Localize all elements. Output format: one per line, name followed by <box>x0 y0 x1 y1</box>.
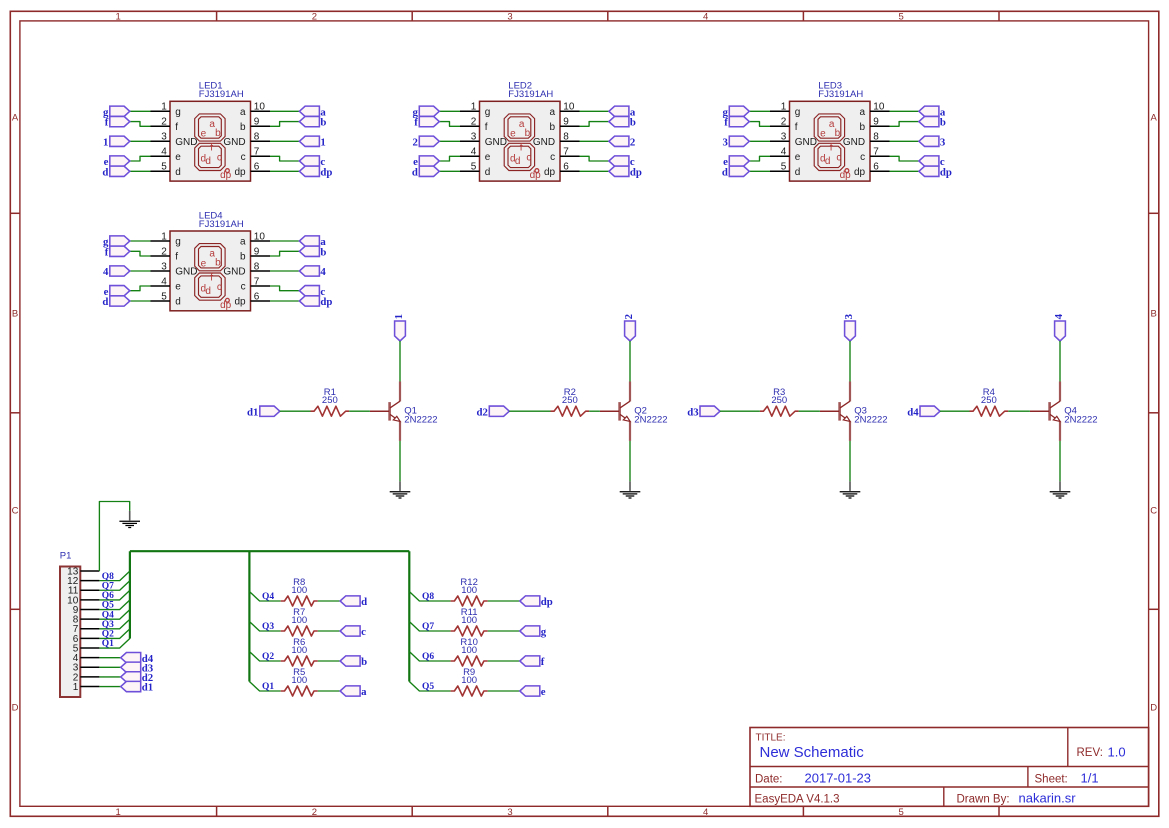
resistor R7 <box>281 626 318 636</box>
resistor R11 <box>451 626 488 636</box>
wire <box>1008 410 1030 412</box>
svg-text:10: 10 <box>254 102 266 113</box>
wire <box>749 156 770 161</box>
net flag dp <box>520 596 553 608</box>
svg-text:6: 6 <box>563 162 569 173</box>
wire <box>890 170 919 172</box>
7-segment display LED3 (FJ3191AH): body and segment glyph <box>790 101 871 181</box>
pin 5 (d) of LED4 with pin number <box>151 291 181 307</box>
svg-text:GND: GND <box>795 137 817 148</box>
wire <box>890 140 919 142</box>
svg-text:100: 100 <box>291 615 307 626</box>
net flag a <box>919 106 946 118</box>
svg-text:3: 3 <box>722 136 728 148</box>
svg-text:FJ3191AH: FJ3191AH <box>508 89 553 100</box>
wire <box>270 110 299 112</box>
svg-text:d1: d1 <box>142 682 153 694</box>
svg-text:c: c <box>836 152 841 163</box>
pin 4 (e) of LED4 with pin number <box>151 276 182 292</box>
svg-text:c: c <box>526 152 531 163</box>
pin 12 of P1 with pin number <box>67 576 99 587</box>
wire <box>249 622 280 632</box>
wire <box>99 638 129 648</box>
svg-text:Q4: Q4 <box>262 592 274 602</box>
pin 2 (f) of LED2 with pin number <box>460 117 488 133</box>
svg-text:REV:: REV: <box>1077 747 1103 759</box>
svg-text:dp: dp <box>541 596 553 608</box>
svg-text:dp: dp <box>530 170 542 181</box>
svg-text:FJ3191AH: FJ3191AH <box>199 219 244 230</box>
svg-text:1: 1 <box>103 136 108 148</box>
wire <box>439 122 460 127</box>
svg-text:4: 4 <box>103 266 109 278</box>
wire <box>99 619 129 629</box>
svg-text:f: f <box>210 143 213 154</box>
pin 4 (e) of LED2 with pin number <box>460 147 491 163</box>
wire <box>270 286 299 291</box>
pin 1 (g) of LED3 with pin number <box>770 102 800 118</box>
pin 7 (c) of LED3 with pin number <box>860 147 889 163</box>
svg-text:f: f <box>830 143 833 154</box>
wire <box>270 270 299 272</box>
svg-text:9: 9 <box>563 117 569 128</box>
pin 13 of P1 with pin number <box>67 566 99 577</box>
resistor R8 <box>281 596 318 606</box>
net flag f <box>724 116 749 128</box>
wire <box>270 251 299 256</box>
svg-text:GND: GND <box>175 137 197 148</box>
svg-text:B: B <box>12 308 18 319</box>
pin 9 (b) of LED3 with pin number <box>860 117 890 133</box>
pin 5 (d) of LED1 with pin number <box>151 162 181 178</box>
svg-text:g: g <box>795 107 801 118</box>
svg-text:1: 1 <box>116 807 121 818</box>
svg-text:3: 3 <box>161 132 167 143</box>
transistor Q3 (2N2222 NPN) <box>820 382 850 441</box>
svg-text:c: c <box>241 152 246 163</box>
wire <box>409 682 450 692</box>
wire (bus from P1) <box>129 551 131 638</box>
pin 8 of P1 with pin number <box>73 615 100 626</box>
svg-text:b: b <box>240 122 246 133</box>
svg-text:b: b <box>525 128 531 139</box>
net flag c <box>919 156 945 168</box>
wire <box>270 300 299 302</box>
transistor Q2 (2N2222 NPN) <box>600 382 630 441</box>
svg-text:1.0: 1.0 <box>1108 744 1126 759</box>
title block <box>750 728 1149 807</box>
pin 6 of P1 with pin number <box>73 634 100 645</box>
wire <box>99 590 129 600</box>
pin 10 of P1 with pin number <box>67 595 99 606</box>
svg-text:New Schematic: New Schematic <box>760 744 865 761</box>
svg-text:Q5: Q5 <box>102 601 114 611</box>
svg-text:Q8: Q8 <box>102 572 114 582</box>
svg-text:d: d <box>485 167 491 178</box>
net flag d2 <box>121 672 153 684</box>
svg-text:b: b <box>860 122 866 133</box>
svg-text:1: 1 <box>161 231 167 242</box>
svg-text:e: e <box>510 129 516 140</box>
resistor R1 <box>311 406 350 416</box>
svg-text:C: C <box>1150 505 1157 516</box>
resistor R12 <box>451 596 488 606</box>
wire <box>99 502 129 572</box>
svg-text:250: 250 <box>981 395 997 406</box>
pin 10 (a) of LED3 with pin number <box>860 102 890 118</box>
svg-text:b: b <box>215 258 221 269</box>
svg-text:A: A <box>1151 113 1158 124</box>
wire <box>749 170 770 172</box>
resistor R5 <box>281 686 318 696</box>
wire <box>99 676 120 678</box>
net flag 2 <box>623 314 635 341</box>
pin 6 (dp) of LED4 with pin number <box>234 291 270 307</box>
wire <box>749 122 770 127</box>
wire <box>629 441 631 482</box>
net flag a <box>609 106 636 118</box>
svg-text:f: f <box>175 122 178 133</box>
pin 9 (b) of LED1 with pin number <box>240 117 270 133</box>
wire <box>439 156 460 161</box>
wire <box>749 140 770 142</box>
svg-text:2: 2 <box>623 314 635 319</box>
svg-text:D: D <box>1150 702 1157 713</box>
svg-text:4: 4 <box>703 807 708 818</box>
wire (right bank bus) <box>408 551 410 681</box>
svg-text:e: e <box>795 152 801 163</box>
wire <box>99 610 129 620</box>
svg-text:8: 8 <box>563 132 569 143</box>
svg-text:2N2222: 2N2222 <box>1064 415 1097 426</box>
ground <box>119 511 140 528</box>
wire <box>270 156 299 161</box>
pin 8 (GND) of LED3 with pin number <box>843 132 890 148</box>
wire <box>130 286 151 291</box>
wire <box>99 657 120 659</box>
svg-text:b: b <box>550 122 556 133</box>
wire <box>890 156 919 161</box>
svg-text:100: 100 <box>461 675 477 686</box>
svg-text:4: 4 <box>781 147 787 158</box>
svg-text:250: 250 <box>562 395 578 406</box>
wire <box>318 690 340 692</box>
svg-text:1: 1 <box>320 136 325 148</box>
svg-text:2N2222: 2N2222 <box>854 415 887 426</box>
wire <box>318 600 340 602</box>
transistor Q1 (2N2222 NPN) <box>370 382 400 441</box>
wire <box>1059 341 1061 382</box>
net flag 1 <box>299 136 325 148</box>
svg-text:e: e <box>175 282 181 293</box>
pin 5 (d) of LED2 with pin number <box>460 162 490 178</box>
net flag g <box>103 236 130 248</box>
svg-text:Q1: Q1 <box>102 639 114 649</box>
net flag d3 <box>687 406 720 418</box>
resistor R9 <box>451 686 488 696</box>
resistor R10 <box>451 656 488 666</box>
wire <box>349 410 370 412</box>
svg-text:c: c <box>550 152 555 163</box>
ground <box>840 481 861 498</box>
svg-text:3: 3 <box>940 136 946 148</box>
net flag e <box>104 156 130 168</box>
wire <box>399 341 401 382</box>
wire (horizontal bus) <box>130 550 409 552</box>
pin 3 (GND) of LED2 with pin number <box>460 132 507 148</box>
svg-text:2: 2 <box>312 12 317 23</box>
svg-text:Q7: Q7 <box>422 622 434 632</box>
svg-text:Date:: Date: <box>755 773 783 785</box>
svg-text:d3: d3 <box>687 406 699 418</box>
svg-text:1: 1 <box>393 314 405 319</box>
svg-text:f: f <box>541 656 545 668</box>
svg-text:EasyEDA V4.1.3: EasyEDA V4.1.3 <box>755 793 840 805</box>
svg-text:c: c <box>217 152 222 163</box>
svg-text:FJ3191AH: FJ3191AH <box>818 89 863 100</box>
svg-text:e: e <box>541 686 546 698</box>
pin 7 (c) of LED1 with pin number <box>241 147 270 163</box>
net flag 2 <box>412 136 439 148</box>
net flag d <box>340 596 367 608</box>
svg-text:dp: dp <box>220 170 232 181</box>
wire <box>409 622 450 632</box>
svg-text:g: g <box>175 237 181 248</box>
svg-text:GND: GND <box>485 137 507 148</box>
pin 2 (f) of LED1 with pin number <box>151 117 179 133</box>
svg-text:dp: dp <box>220 300 232 311</box>
7-segment display LED2 (FJ3191AH): body and segment glyph <box>480 101 561 181</box>
wire <box>799 410 820 412</box>
net flag g <box>103 106 130 118</box>
svg-text:8: 8 <box>873 132 879 143</box>
wire <box>249 682 280 692</box>
svg-text:e: e <box>820 129 826 140</box>
pin 3 (GND) of LED1 with pin number <box>151 132 198 148</box>
net flag g <box>520 626 547 638</box>
svg-text:b: b <box>361 656 367 668</box>
pin 6 (dp) of LED2 with pin number <box>544 162 580 178</box>
pin 10 (a) of LED2 with pin number <box>550 102 580 118</box>
net flag e <box>723 156 749 168</box>
pin 7 (c) of LED4 with pin number <box>241 276 270 292</box>
svg-text:dp: dp <box>320 166 332 178</box>
pin 1 of P1 with pin number <box>73 682 100 693</box>
svg-text:g: g <box>485 107 491 118</box>
wire <box>849 341 851 382</box>
svg-text:GND: GND <box>175 267 197 278</box>
svg-text:5: 5 <box>899 12 904 23</box>
net flag d1 <box>121 681 153 693</box>
net flag 1 <box>393 314 405 341</box>
svg-text:b: b <box>630 117 636 129</box>
net flag dp <box>299 166 332 178</box>
wire (left bank bus) <box>248 551 250 681</box>
svg-text:e: e <box>201 258 207 269</box>
svg-text:f: f <box>210 272 213 283</box>
svg-text:c: c <box>241 282 246 293</box>
wire <box>130 270 151 272</box>
svg-text:d: d <box>361 596 367 608</box>
net flag 4 <box>299 266 326 278</box>
net flag d4 <box>121 653 154 665</box>
svg-text:f: f <box>795 122 798 133</box>
pin 9 of P1 with pin number <box>73 605 100 616</box>
svg-text:7: 7 <box>563 147 569 158</box>
svg-text:2N2222: 2N2222 <box>404 415 437 426</box>
svg-text:g: g <box>175 107 181 118</box>
wire <box>130 140 151 142</box>
wire <box>99 629 129 639</box>
svg-text:1/1: 1/1 <box>1081 771 1099 786</box>
svg-text:f: f <box>105 117 109 129</box>
wire <box>488 630 520 632</box>
wire <box>488 660 520 662</box>
pin 3 of P1 with pin number <box>73 663 100 674</box>
svg-text:a: a <box>240 107 246 118</box>
svg-text:d4: d4 <box>907 406 919 418</box>
svg-text:g: g <box>541 626 547 638</box>
net flag b <box>299 246 326 258</box>
svg-text:1: 1 <box>161 102 167 113</box>
svg-text:100: 100 <box>461 615 477 626</box>
wire <box>580 122 609 127</box>
net flag g <box>722 106 749 118</box>
net flag b <box>340 656 367 668</box>
net flag d <box>722 166 749 178</box>
pin 6 (dp) of LED1 with pin number <box>234 162 270 178</box>
svg-text:e: e <box>485 152 491 163</box>
svg-text:f: f <box>105 246 109 258</box>
wire <box>439 110 460 112</box>
wire <box>749 110 770 112</box>
svg-text:dp: dp <box>854 167 866 178</box>
svg-text:dp: dp <box>234 167 246 178</box>
wire <box>270 240 299 242</box>
wire <box>249 652 280 662</box>
svg-text:3: 3 <box>781 132 787 143</box>
svg-text:3: 3 <box>161 261 167 272</box>
svg-text:6: 6 <box>873 162 879 173</box>
svg-text:2: 2 <box>630 136 635 148</box>
svg-text:c: c <box>361 626 366 638</box>
svg-text:a: a <box>550 107 556 118</box>
svg-text:D: D <box>12 702 19 713</box>
svg-text:b: b <box>215 128 221 139</box>
pin 8 (GND) of LED4 with pin number <box>223 261 270 277</box>
svg-text:a: a <box>361 686 367 698</box>
net flag c <box>299 286 325 298</box>
net flag 2 <box>609 136 635 148</box>
svg-text:b: b <box>320 117 326 129</box>
svg-text:3: 3 <box>507 807 512 818</box>
pin 5 (d) of LED3 with pin number <box>770 162 800 178</box>
svg-text:Q3: Q3 <box>262 622 274 632</box>
svg-text:d: d <box>102 296 108 308</box>
wire <box>890 110 919 112</box>
net flag c <box>340 626 366 638</box>
ground <box>1050 481 1071 498</box>
pin 9 (b) of LED2 with pin number <box>550 117 580 133</box>
svg-text:f: f <box>175 252 178 263</box>
svg-text:f: f <box>520 143 523 154</box>
svg-text:P1: P1 <box>60 551 72 562</box>
svg-text:1: 1 <box>781 102 787 113</box>
svg-text:GND: GND <box>223 267 245 278</box>
svg-text:Q5: Q5 <box>422 682 434 692</box>
svg-text:2: 2 <box>781 117 787 128</box>
wire <box>270 122 299 127</box>
svg-text:b: b <box>320 246 326 258</box>
pin 4 of P1 with pin number <box>73 653 100 664</box>
svg-text:TITLE:: TITLE: <box>756 732 786 743</box>
net flag 3 <box>919 136 946 148</box>
svg-text:2: 2 <box>412 136 417 148</box>
svg-text:GND: GND <box>843 137 865 148</box>
svg-text:4: 4 <box>1053 313 1065 319</box>
net flag d <box>102 296 129 308</box>
net flag f <box>105 246 130 258</box>
svg-text:7: 7 <box>254 147 260 158</box>
net flag d <box>102 166 129 178</box>
wire <box>629 341 631 382</box>
svg-text:d: d <box>515 156 521 167</box>
pin 9 (b) of LED4 with pin number <box>240 246 270 262</box>
svg-text:Q7: Q7 <box>102 581 114 591</box>
svg-text:b: b <box>940 117 946 129</box>
wire <box>318 660 340 662</box>
svg-text:4: 4 <box>320 266 326 278</box>
svg-text:dp: dp <box>544 167 556 178</box>
wire <box>130 300 151 302</box>
net flag c <box>299 156 325 168</box>
svg-text:3: 3 <box>843 313 855 319</box>
wire <box>409 592 450 602</box>
svg-text:6: 6 <box>254 162 260 173</box>
wire <box>509 410 550 412</box>
svg-text:5: 5 <box>899 807 904 818</box>
net flag b <box>609 116 636 128</box>
svg-text:Drawn By:: Drawn By: <box>957 793 1010 805</box>
resistor R6 <box>281 656 318 666</box>
svg-text:100: 100 <box>291 645 307 656</box>
svg-text:Q8: Q8 <box>422 592 434 602</box>
svg-text:a: a <box>240 237 246 248</box>
svg-text:d: d <box>205 156 211 167</box>
svg-text:d: d <box>825 156 831 167</box>
resistor R3 <box>760 406 799 416</box>
net flag e <box>520 686 546 698</box>
wire <box>720 410 760 412</box>
pin 2 (f) of LED4 with pin number <box>151 246 179 262</box>
wire <box>399 441 401 482</box>
pin 6 (dp) of LED3 with pin number <box>854 162 890 178</box>
svg-text:e: e <box>201 129 207 140</box>
svg-text:7: 7 <box>873 147 879 158</box>
net flag c <box>609 156 635 168</box>
svg-text:Q1: Q1 <box>262 682 274 692</box>
wire <box>580 140 609 142</box>
svg-text:A: A <box>12 113 19 124</box>
wire <box>890 122 919 127</box>
svg-text:3: 3 <box>471 132 477 143</box>
svg-text:4: 4 <box>161 147 167 158</box>
ground <box>620 481 641 498</box>
svg-text:f: f <box>414 117 418 129</box>
net flag d1 <box>247 406 280 418</box>
wire <box>130 240 151 242</box>
svg-text:Q2: Q2 <box>262 652 274 662</box>
